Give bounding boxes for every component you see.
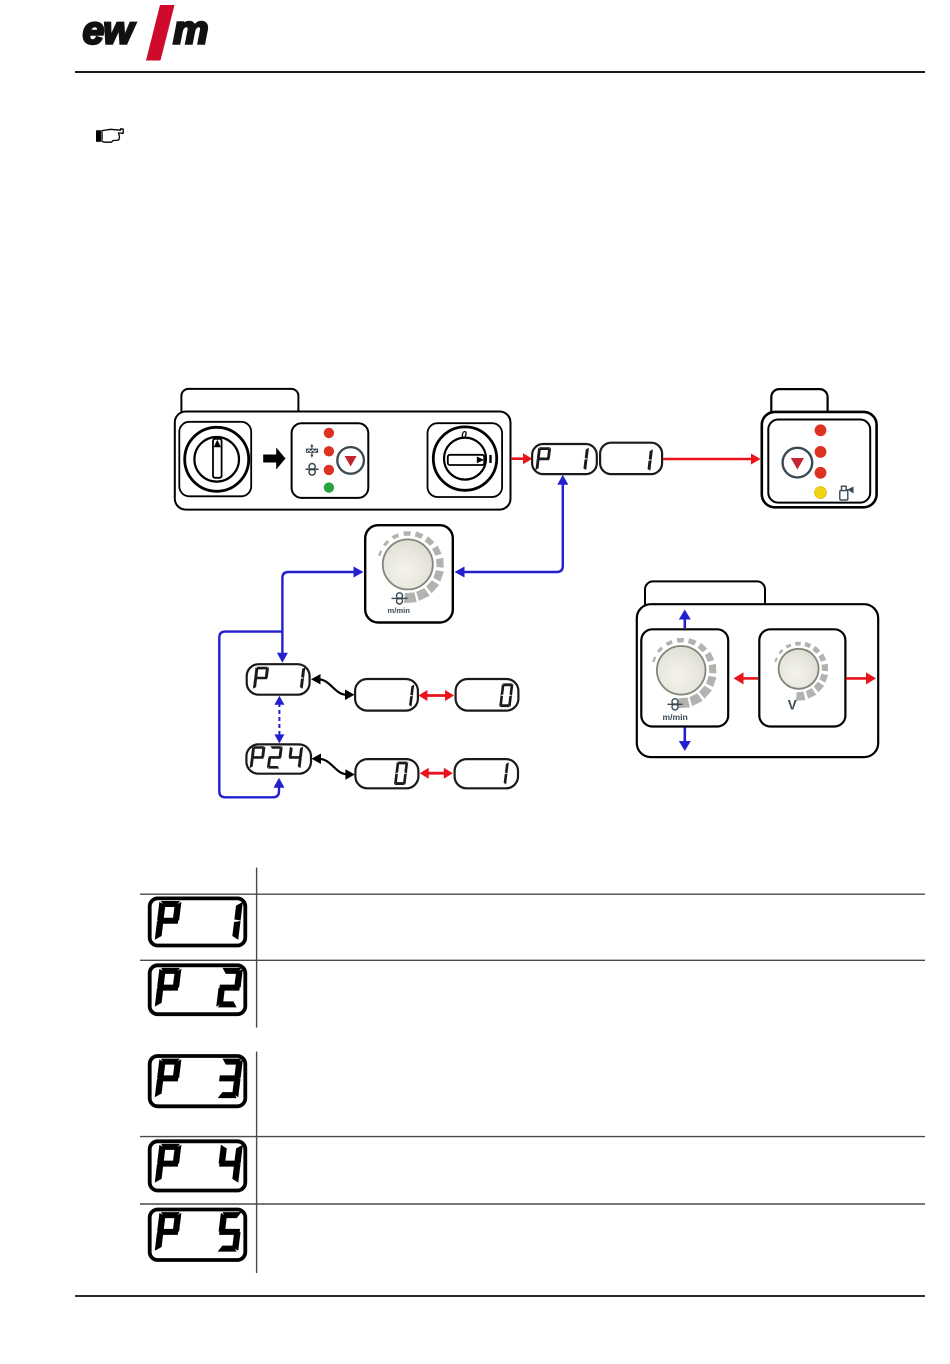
knob K2 inner ring — [444, 438, 486, 480]
display value 1 top — [600, 443, 662, 474]
table row line 4 — [140, 1203, 925, 1205]
wire-speed knob box — [365, 525, 453, 622]
table row line 1 — [140, 893, 925, 895]
panel2 LED red3 — [815, 467, 827, 479]
LED green — [324, 482, 334, 492]
panel2 tab — [771, 389, 827, 419]
icon wire-feed rolls — [306, 464, 319, 476]
icon wire-threading — [306, 444, 318, 458]
wire knob dash arc — [652, 638, 716, 708]
K2 position I mark — [489, 455, 491, 463]
header rule — [75, 71, 925, 73]
svg-text:m: m — [173, 9, 209, 53]
svg-text:m/min: m/min — [388, 606, 411, 615]
knob K1 inner ring — [194, 437, 239, 482]
svg-text:ew: ew — [83, 10, 137, 53]
panel2 torch button — [783, 448, 813, 478]
torch button — [337, 447, 364, 474]
LED box — [292, 423, 369, 498]
LED red 3 — [324, 465, 334, 475]
svg-text:0: 0 — [461, 430, 467, 441]
red arrow to right panel — [663, 458, 752, 461]
knob K2 bezel — [428, 423, 503, 497]
LED red 2 — [324, 446, 334, 456]
table column divider — [256, 868, 258, 1028]
panel1 body — [175, 412, 511, 510]
blue dashed scroll arrow — [278, 703, 280, 737]
table display P3 — [150, 1056, 246, 1106]
red left arrow — [742, 677, 758, 680]
knob K1 pointer bar — [213, 439, 222, 478]
value box 1 (row1) — [355, 679, 418, 711]
LED red 1 — [324, 428, 334, 438]
table row line 2 — [140, 959, 925, 961]
S-curve arrow row2 — [319, 759, 349, 775]
K2 selector bar — [448, 455, 484, 465]
footer rule — [75, 1295, 925, 1297]
svg-text:V: V — [788, 698, 797, 713]
blue down arrow — [683, 728, 686, 743]
table display P4 — [150, 1141, 246, 1190]
volt knob bezel — [759, 629, 845, 726]
svg-text:m/min: m/min — [663, 712, 688, 722]
gas bottle icon — [840, 486, 854, 500]
red arrow to P1 display — [511, 457, 524, 460]
volt knob dash arc — [774, 642, 828, 701]
red toggle arrow row1 — [426, 694, 447, 697]
display P1 menu — [247, 664, 310, 695]
volt knob — [779, 649, 819, 689]
wire feed icon 2 — [668, 699, 683, 710]
black step arrow — [263, 448, 285, 470]
panel3 body — [637, 604, 878, 757]
red right arrow — [846, 677, 867, 680]
table display P2 — [150, 965, 246, 1014]
panel2 LED red1 — [815, 424, 827, 436]
S-curve arrow row1 — [318, 679, 348, 695]
table display P5 — [150, 1210, 246, 1261]
display P1 top — [532, 444, 597, 474]
blue wire knob-to-P1menu — [354, 567, 364, 578]
blue loop to P24 — [219, 632, 282, 798]
table display P1 — [150, 898, 246, 945]
value box 1 (row2) — [455, 759, 518, 788]
knob K2 outer ring — [433, 427, 496, 490]
wire knob — [657, 646, 706, 695]
blue up arrow — [683, 618, 686, 628]
knob K1 bezel — [179, 422, 251, 497]
logo red slash — [146, 5, 175, 61]
knob dash arc — [378, 531, 444, 603]
panel2 outer body — [762, 412, 877, 507]
wire knob bezel — [641, 629, 728, 726]
pointing-hand note icon — [96, 129, 123, 142]
knob K1 outer ring — [185, 427, 249, 491]
panel3 tab — [645, 581, 765, 611]
wire feed icon — [392, 593, 408, 604]
blue wire P1-to-knob — [557, 475, 568, 485]
panel2 inner face — [768, 420, 870, 503]
value box 0 (row2) — [355, 759, 418, 788]
display P24 menu — [246, 744, 311, 773]
panel1 tab — [181, 389, 298, 419]
value box 0 (row1) — [456, 679, 519, 711]
wire-speed knob — [383, 539, 433, 589]
panel2 LED yellow — [815, 487, 827, 499]
table row line 3 — [140, 1136, 925, 1138]
panel2 LED red2 — [815, 446, 827, 458]
red toggle arrow row2 — [427, 772, 446, 775]
